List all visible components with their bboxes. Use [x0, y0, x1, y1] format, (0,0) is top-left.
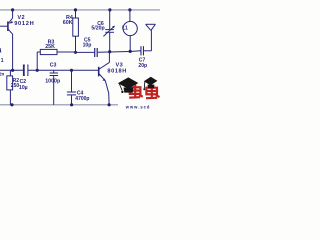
svg-text:60K: 60K: [63, 20, 73, 26]
svg-text:2n: 2n: [0, 71, 5, 76]
antenna: [146, 24, 156, 51]
capacitor C3 1000p: [50, 70, 59, 105]
wire: top V+ rail: [0, 9, 160, 11]
svg-text:20p: 20p: [138, 63, 147, 69]
watermark red character chong 1: [129, 84, 143, 97]
resistor R4 60K: [73, 10, 79, 52]
wire: bottom ground rail: [0, 104, 118, 106]
capacitor C2 10u (series on mid wire): [23, 65, 25, 77]
watermark red character chong 2: [146, 85, 160, 99]
node: junction dot top rail / R4: [74, 8, 77, 11]
svg-text:www.scd: www.scd: [125, 104, 151, 109]
svg-text:V2: V2: [17, 15, 25, 21]
svg-text:4700p: 4700p: [75, 96, 89, 102]
node: junction dot mid wire / R3 riser: [36, 69, 39, 72]
svg-text:5/20p: 5/20p: [91, 26, 104, 32]
wire: mid horizontal wire (base line): [0, 69, 98, 71]
resistor R2 250: [7, 70, 13, 105]
svg-text:10µ: 10µ: [19, 85, 28, 91]
node: junction dot bottom rail / C4: [70, 103, 73, 106]
watermark graduation cap 2: [144, 77, 158, 89]
svg-text:10p: 10p: [83, 42, 92, 48]
node: junction dot collector line / L1: [129, 50, 132, 53]
svg-text:1: 1: [1, 58, 4, 64]
transistor V2 9012H (PNP): [0, 10, 13, 70]
capacitor C6 5/20p (variable): [103, 10, 114, 52]
node: junction dot top rail / V2 emitter: [11, 8, 14, 11]
transistor V3 8018H (NPN): [99, 52, 110, 105]
inductor L1 (loop): [123, 10, 137, 52]
svg-text:1000p: 1000p: [45, 78, 61, 84]
node: junction dot top rail / L1: [128, 8, 131, 11]
node: junction dot bottom rail / V3 emitter: [108, 103, 111, 106]
capacitor C5 10p (series on collector line): [94, 48, 95, 57]
node: junction dot mid wire / C4: [70, 69, 73, 72]
capacitor C4 4700p: [67, 70, 76, 105]
capacitor C7 20p (series to antenna): [140, 46, 141, 55]
svg-text:V3: V3: [116, 62, 124, 68]
svg-text:9012H: 9012H: [14, 21, 34, 27]
node: junction dot mid wire / V2 collector: [11, 69, 14, 72]
node: junction dot collector line / C6+V3 collector: [108, 50, 111, 53]
wire: collector line y=51.6: [76, 51, 95, 53]
node: junction dot R3/R4/C5: [74, 51, 77, 54]
svg-text:8018H: 8018H: [107, 69, 126, 75]
svg-text:C3: C3: [50, 63, 57, 69]
node: junction dot bottom rail / R2: [10, 103, 13, 106]
node: junction dot top rail / C6: [108, 8, 111, 11]
svg-text:25K: 25K: [45, 44, 55, 50]
watermark graduation cap 1: [118, 77, 139, 92]
resistor R3 25K: [37, 49, 75, 70]
svg-text:L1: L1: [122, 25, 128, 31]
